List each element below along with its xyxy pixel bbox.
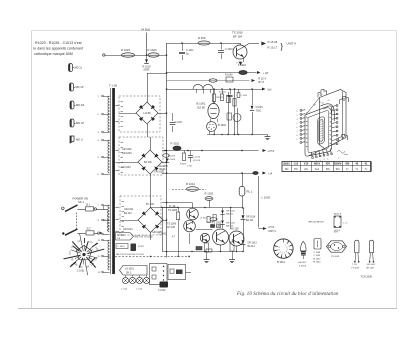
svg-text:TS 1002: TS 1002	[313, 258, 322, 260]
svg-text:5: 5	[297, 123, 298, 125]
svg-text:R 1024: R 1024	[148, 48, 157, 52]
svg-text:. R1029 - R1035 - C1013 s’est: . R1029 - R1035 - C1013 s’est	[33, 41, 82, 45]
svg-text:GR 1016: GR 1016	[226, 222, 236, 224]
svg-text:+ 30v: + 30v	[236, 61, 243, 65]
svg-text:C 1041: C 1041	[118, 246, 126, 248]
svg-text:n °: n °	[338, 158, 341, 160]
svg-text:TS 1004: TS 1004	[313, 262, 322, 264]
svg-text:Fig. 10 Schéma du circuit du: Fig. 10 Schéma du circuit du bloc d’alim…	[236, 292, 339, 297]
svg-text:7: 7	[280, 251, 281, 253]
svg-text:AF116N-BF195: AF116N-BF195	[309, 221, 325, 224]
svg-text:ru dans les appareils contenan: ru dans les appareils contenant	[33, 47, 83, 51]
svg-text:4B1V: 4B1V	[314, 163, 321, 166]
svg-text:BA 114: BA 114	[226, 213, 234, 216]
svg-text:4.9C00: 4.9C00	[299, 265, 307, 267]
svg-text:L 1.04: L 1.04	[121, 289, 128, 291]
svg-text:6: 6	[297, 127, 298, 129]
svg-text:MD 1P: MD 1P	[76, 121, 84, 125]
svg-text:42V: 42V	[326, 163, 331, 166]
svg-text:TCH 1038: TCH 1038	[361, 276, 373, 279]
svg-text:8: 8	[279, 249, 280, 251]
svg-text:GR 1013: GR 1013	[248, 243, 258, 245]
svg-text:R 1012: R 1012	[186, 182, 195, 186]
svg-text:T 1.08: T 1.08	[109, 84, 117, 88]
svg-text:3: 3	[287, 249, 288, 251]
svg-text:R 15.17: R 15.17	[268, 45, 278, 49]
svg-text:SK 1: SK 1	[78, 200, 85, 204]
svg-text:GR 1007: GR 1007	[366, 267, 375, 269]
svg-text:T16C: T16C	[256, 110, 262, 113]
svg-text:+HT1: +HT1	[268, 150, 275, 153]
svg-text:SI 2: SI 2	[87, 229, 92, 231]
svg-text:BF 194: BF 194	[233, 35, 242, 39]
svg-text:LA 1001: LA 1001	[125, 268, 134, 271]
svg-text:6u4: 6u4	[315, 168, 320, 171]
svg-text:TS 1005: TS 1005	[351, 267, 360, 269]
svg-text:C 1024: C 1024	[158, 290, 166, 292]
svg-text:C 1009: C 1009	[314, 255, 322, 257]
svg-text:C 1042: C 1042	[159, 233, 167, 235]
svg-text:4: 4	[323, 159, 324, 161]
svg-text:R 1009: R 1009	[168, 159, 176, 161]
svg-text:AC 128: AC 128	[167, 226, 176, 229]
svg-text:GR 1013: GR 1013	[123, 228, 133, 231]
svg-text:R1007: R1007	[217, 97, 224, 99]
svg-text:C 84: C 84	[187, 166, 192, 168]
svg-text:L 1003: L 1003	[262, 196, 271, 200]
svg-text:B(0)1: B(0)1	[284, 163, 291, 166]
svg-text:MD U: MD U	[76, 138, 83, 142]
svg-text:R 1040: R 1040	[225, 75, 233, 77]
svg-text:R 1021: R 1021	[205, 191, 214, 195]
svg-text:BA 114: BA 114	[160, 168, 168, 171]
svg-text:C 1017: C 1017	[175, 122, 183, 124]
svg-text:GR 1002: GR 1002	[122, 148, 132, 151]
svg-text:BA 114: BA 114	[124, 212, 132, 215]
svg-text:L 1.04: L 1.04	[136, 289, 143, 291]
svg-text:C 1016: C 1016	[225, 48, 233, 51]
svg-text:8: 8	[297, 135, 298, 137]
svg-text:R 900: R 900	[198, 36, 206, 40]
svg-text:R 847: R 847	[180, 164, 187, 166]
svg-text:UNIT C: UNIT C	[268, 230, 276, 233]
svg-text:4: 4	[297, 119, 298, 121]
svg-text:B100V: B100V	[334, 163, 342, 166]
svg-text:SK 3: SK 3	[126, 271, 132, 274]
svg-text:MD 11: MD 11	[75, 66, 83, 70]
svg-text:LH 80: LH 80	[143, 111, 151, 115]
svg-text:B(0)T B: B(0)T B	[334, 213, 342, 215]
svg-text:cathodique marqué 50M: cathodique marqué 50M	[34, 52, 73, 56]
svg-text:C 1051: C 1051	[77, 271, 85, 273]
svg-text:AD 139: AD 139	[231, 228, 240, 231]
svg-text:MD 1P: MD 1P	[76, 85, 84, 89]
svg-text:GR 1008: GR 1008	[159, 166, 169, 168]
svg-text:B 1001: B 1001	[277, 261, 286, 264]
svg-text:BA 114: BA 114	[248, 245, 256, 248]
svg-text:R 15.36: R 15.36	[268, 40, 278, 44]
svg-text:R 1031: R 1031	[219, 92, 227, 94]
svg-text:SI 1: SI 1	[86, 205, 91, 207]
svg-text:GR 1004: GR 1004	[121, 166, 131, 169]
svg-text:+ HT: + HT	[263, 71, 269, 75]
svg-text:9: 9	[279, 247, 280, 249]
svg-text:24 B(1): 24 B(1)	[141, 28, 150, 32]
svg-text:+14: +14	[268, 173, 273, 176]
svg-text:R 10.8: R 10.8	[201, 217, 208, 219]
svg-text:LA 1001: LA 1001	[298, 261, 307, 264]
svg-text:1: 1	[312, 162, 313, 164]
svg-text:V10: V10	[304, 163, 309, 166]
svg-text:+HT2: +HT2	[268, 226, 275, 229]
svg-text:TS 1005: TS 1005	[168, 209, 178, 212]
svg-text:BA 114: BA 114	[226, 225, 234, 228]
svg-text:GR 1014: GR 1014	[246, 217, 256, 219]
svg-text:500R: 500R	[144, 69, 150, 72]
svg-text:}: }	[280, 42, 284, 52]
svg-text:SK 301: SK 301	[117, 235, 125, 237]
svg-text:B 1002: B 1002	[218, 124, 227, 127]
svg-text:9: 9	[297, 139, 298, 141]
svg-text:3: 3	[297, 115, 298, 117]
svg-text:2: 2	[297, 111, 298, 113]
svg-text:7: 7	[297, 131, 298, 133]
svg-text:GR 1003: GR 1003	[122, 152, 132, 155]
svg-text:BA 100: BA 100	[144, 161, 152, 164]
svg-text:R 220: R 220	[138, 246, 145, 248]
svg-text:5: 5	[284, 252, 285, 254]
svg-text:C 1015: C 1015	[241, 95, 249, 97]
svg-text:6: 6	[282, 252, 283, 254]
svg-text:4: 4	[286, 251, 287, 253]
svg-text:MD DA: MD DA	[76, 103, 85, 107]
svg-text:C 1014: C 1014	[193, 157, 201, 159]
svg-text:6v3: 6v3	[268, 89, 273, 92]
svg-text:BA 114: BA 114	[246, 219, 254, 222]
svg-text:NIET IN TS 1002 EN TS 1004: NIET IN TS 1002 EN TS 1004	[116, 254, 144, 256]
svg-text:UNIT A: UNIT A	[287, 42, 297, 46]
svg-text:C 1008: C 1008	[314, 252, 322, 254]
svg-text:5: 5	[327, 158, 328, 160]
svg-text:RL 1: RL 1	[247, 190, 253, 194]
svg-text:R 1005: R 1005	[168, 156, 176, 158]
svg-text:GR 1011: GR 1011	[124, 208, 134, 211]
svg-text:NIET IN TS 1002: NIET IN TS 1002	[135, 236, 154, 239]
svg-text:TS 1003: TS 1003	[331, 256, 340, 258]
svg-text:GR 1001: GR 1001	[367, 264, 376, 266]
svg-text:R 1002: R 1002	[171, 142, 180, 146]
svg-text:430: 430	[345, 163, 350, 166]
svg-text:BY 8: BY 8	[259, 81, 265, 84]
svg-text:L10: L10	[294, 163, 299, 166]
svg-text:R 1013: R 1013	[193, 160, 201, 162]
svg-text:EZ 80: EZ 80	[198, 106, 206, 110]
svg-text:R 1023: R 1023	[121, 48, 130, 52]
svg-text:GR 1012: GR 1012	[226, 210, 236, 212]
